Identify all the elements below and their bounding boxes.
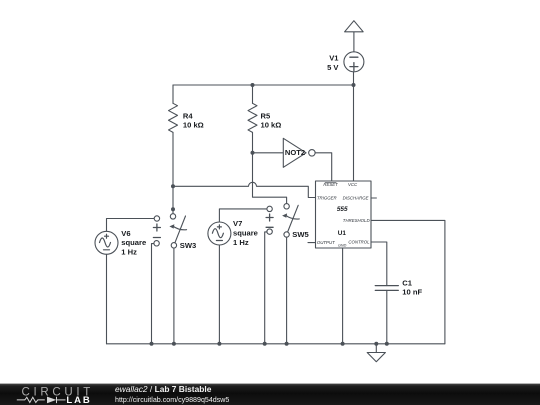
svg-text:SW3: SW3 — [180, 241, 196, 250]
svg-text:10 kΩ: 10 kΩ — [183, 121, 204, 130]
svg-text:ewallac2 / Lab 7 Bistable: ewallac2 / Lab 7 Bistable — [115, 384, 212, 394]
svg-text:LAB: LAB — [66, 395, 91, 405]
svg-text:1 Hz: 1 Hz — [233, 238, 249, 247]
svg-text:NOT2: NOT2 — [285, 148, 305, 157]
svg-text:10 nF: 10 nF — [402, 288, 422, 297]
svg-text:R5: R5 — [261, 111, 271, 120]
svg-text:OUTPUT: OUTPUT — [317, 240, 335, 245]
svg-text:THRESHOLD: THRESHOLD — [343, 218, 370, 223]
svg-text:SW5: SW5 — [292, 230, 309, 239]
svg-text:V6: V6 — [121, 229, 130, 238]
svg-text:5 V: 5 V — [327, 63, 339, 72]
svg-text:1 Hz: 1 Hz — [121, 247, 137, 256]
svg-text:555: 555 — [337, 206, 348, 213]
svg-text:U1: U1 — [338, 230, 347, 237]
svg-text:DISCHARGE: DISCHARGE — [343, 196, 369, 201]
svg-text:CONTROL: CONTROL — [348, 240, 370, 245]
svg-text:V1: V1 — [329, 54, 339, 63]
svg-text:10 kΩ: 10 kΩ — [261, 121, 282, 130]
svg-text:square: square — [233, 229, 258, 238]
svg-text:RESET: RESET — [323, 182, 338, 187]
svg-text:http://circuitlab.com/cy9889q5: http://circuitlab.com/cy9889q54dsw5 — [115, 396, 229, 404]
svg-text:square: square — [121, 238, 146, 247]
svg-text:C1: C1 — [402, 278, 412, 287]
svg-text:GND: GND — [338, 243, 347, 247]
svg-text:V7: V7 — [233, 219, 242, 228]
svg-text:TRIGGER: TRIGGER — [317, 196, 337, 201]
svg-text:VCC: VCC — [348, 182, 358, 187]
svg-text:R4: R4 — [183, 111, 193, 120]
